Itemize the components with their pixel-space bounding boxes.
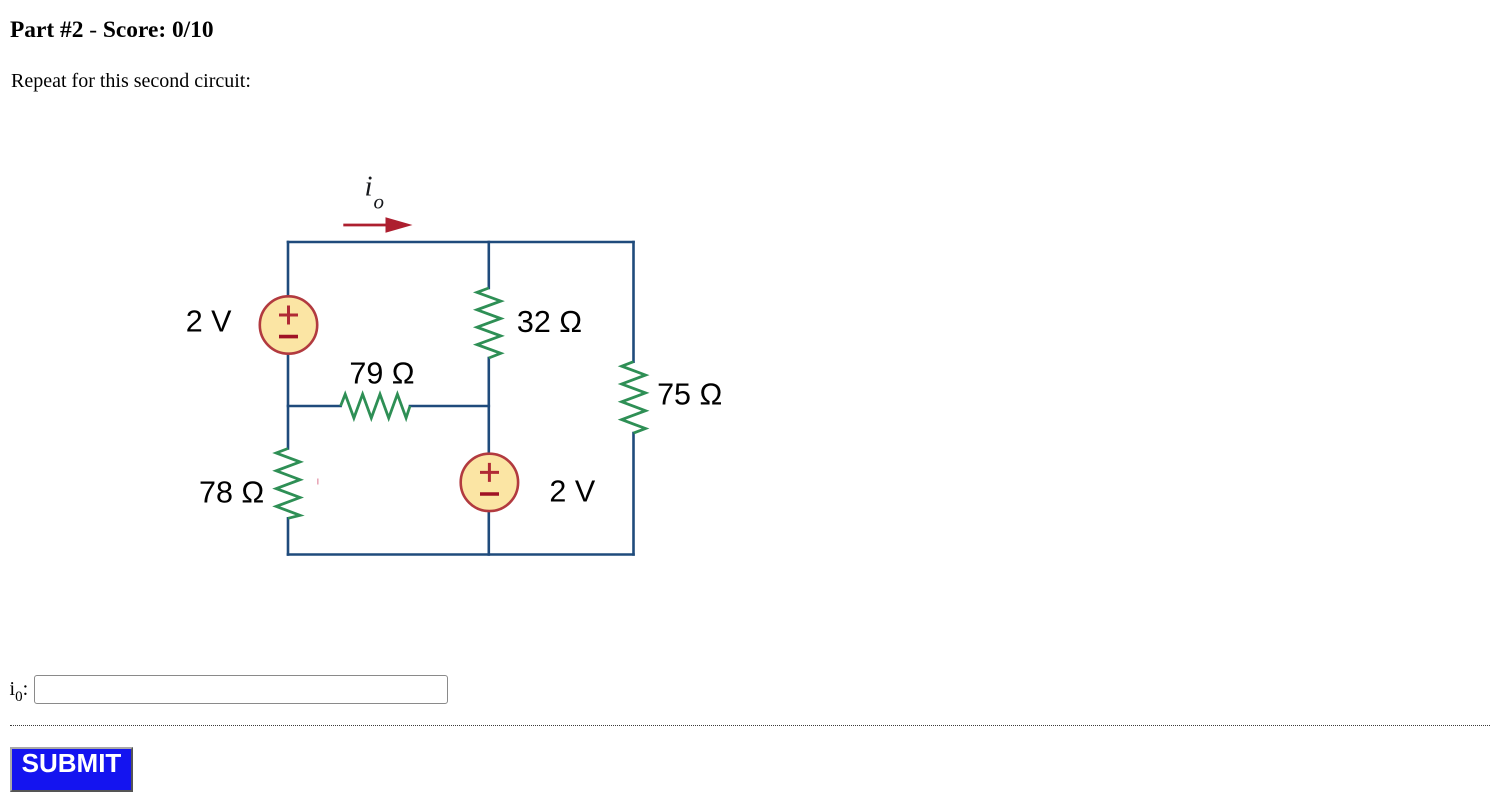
wire right lower (R75 bottom to bottom rail) xyxy=(632,433,635,554)
resistor 32 ohm (middle branch vertical zigzag) xyxy=(477,288,501,358)
svg-text:32 Ω: 32 Ω xyxy=(517,305,582,339)
wire bottom (ground rail) xyxy=(288,553,634,556)
resistor 79 ohm (horizontal zigzag at node B) xyxy=(341,394,410,418)
resistor 78 ohm (left branch vertical zigzag) xyxy=(276,449,300,519)
svg-text:78 Ω: 78 Ω xyxy=(199,475,264,509)
wire top (node from V1 plus terminal across top) xyxy=(288,241,634,244)
wire node B horizontal (left branch to middle branch through R79) xyxy=(288,405,341,408)
wire middle lower (V2 bottom to bottom rail) xyxy=(487,512,490,555)
V1 plus xyxy=(279,306,298,325)
svg-text:2 V: 2 V xyxy=(549,474,595,508)
stray pink tick artifact xyxy=(317,479,319,485)
answer label i_0: xyxy=(10,679,29,705)
V1 minus xyxy=(279,335,298,339)
wire left upper (top wire to V1 top) xyxy=(287,242,290,297)
resistor 75 ohm (right branch vertical zigzag) xyxy=(622,362,646,433)
svg-text:75 Ω: 75 Ω xyxy=(657,377,722,411)
svg-text:2 V: 2 V xyxy=(186,305,232,339)
voltage source V2 (2 V, middle branch bottom) xyxy=(461,454,518,511)
answer input box xyxy=(34,675,448,704)
wire right upper (top wire to R75 top) xyxy=(632,242,635,362)
svg-text:79 Ω: 79 Ω xyxy=(349,356,414,390)
current label i_o xyxy=(365,171,385,214)
svg-text:i: i xyxy=(365,171,373,203)
current arrow i_o xyxy=(343,217,412,232)
wire middle between R32 and node B xyxy=(487,358,490,453)
wire left lower (R78 bottom to bottom rail) xyxy=(287,518,290,554)
V2 plus xyxy=(480,463,499,482)
circuit schematic xyxy=(150,150,790,620)
wire middle upper (top wire to R32 top) xyxy=(487,242,490,288)
dotted separator xyxy=(10,725,1490,726)
svg-text:o: o xyxy=(374,190,385,214)
heading: Part #2 - Score: 0/10 xyxy=(10,19,214,42)
V2 minus xyxy=(480,492,499,496)
voltage source V1 (2 V, left branch) xyxy=(260,296,317,353)
SUBMIT button xyxy=(10,747,133,792)
wire left middle (V1 bottom to node B and R78 top) xyxy=(287,354,290,449)
prompt paragraph xyxy=(11,71,251,91)
